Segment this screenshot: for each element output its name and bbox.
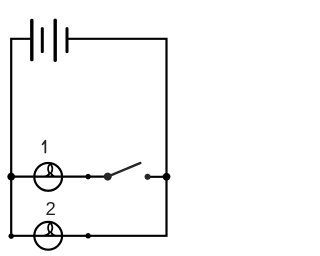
svg-text:2: 2 (46, 198, 56, 219)
